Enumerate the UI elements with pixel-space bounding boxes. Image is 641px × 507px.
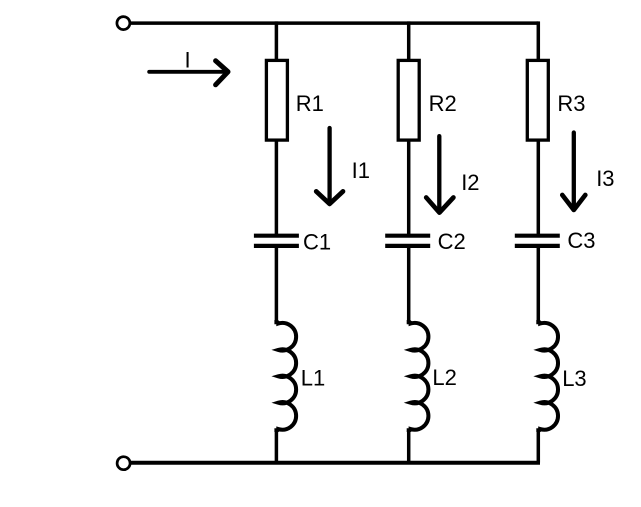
arrow: input current I [149, 61, 228, 85]
wire: R2 to C2 [407, 140, 411, 235]
wire: R1 to C1 [275, 140, 279, 235]
wire: L1 to bottom bus [275, 430, 279, 463]
svg-text:I: I [185, 47, 191, 72]
svg-text:R2: R2 [429, 91, 457, 116]
svg-text:L2: L2 [432, 365, 456, 390]
svg-text:C3: C3 [567, 228, 595, 253]
inductor L2 [409, 320, 429, 432]
wire: R2 top stub [407, 21, 411, 62]
wire: R3 top stub (corner from top bus) [537, 21, 541, 62]
svg-text:I1: I1 [352, 158, 370, 183]
arrow: branch current I1 [316, 128, 343, 204]
capacitor C3 [515, 236, 560, 246]
svg-text:R1: R1 [296, 91, 324, 116]
svg-text:L1: L1 [301, 366, 325, 391]
svg-text:C2: C2 [438, 229, 466, 254]
capacitor C2 [385, 236, 430, 246]
svg-text:L3: L3 [562, 366, 586, 391]
wire: C2 to L2 [407, 248, 411, 323]
wire: C1 to L1 [275, 248, 279, 323]
svg-text:I2: I2 [461, 170, 479, 195]
arrow: branch current I3 [562, 133, 585, 210]
wire: L2 to bottom bus [407, 430, 411, 463]
resistor R2 [398, 60, 419, 140]
inductor L1 [276, 320, 296, 432]
wire: R1 top stub [275, 21, 279, 62]
wire: L3 to bottom bus [537, 430, 541, 463]
wire: top bus [131, 21, 538, 25]
wire: bottom bus [131, 461, 540, 465]
svg-text:C1: C1 [303, 229, 331, 254]
resistor R3 [527, 60, 548, 140]
terminal T2 (bottom input, open circle) [117, 457, 130, 470]
resistor R1 [266, 60, 287, 140]
terminal T1 (top input, open circle) [117, 17, 130, 30]
inductor L3 [538, 320, 558, 432]
wire: C3 to L3 [537, 248, 541, 323]
arrow: branch current I2 [426, 136, 453, 212]
svg-text:I3: I3 [596, 166, 614, 191]
capacitor C1 [254, 236, 299, 246]
svg-text:R3: R3 [557, 91, 585, 116]
wire: R3 to C3 [537, 140, 541, 235]
